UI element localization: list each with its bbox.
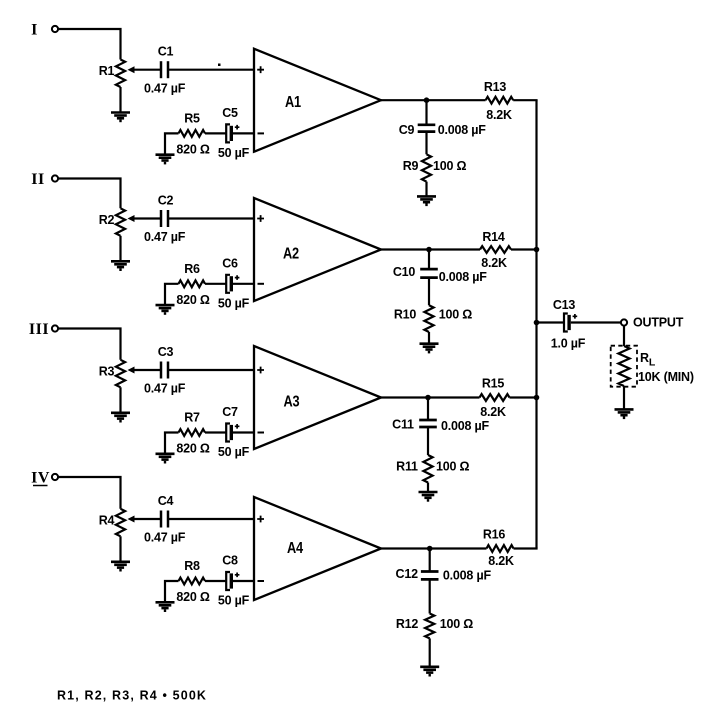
- OUTPUT terminal: [621, 319, 627, 325]
- svg-text:8.2K: 8.2K: [486, 108, 512, 122]
- wire capacitor C3 to + input of op-amp A3: [168, 369, 254, 371]
- svg-text:0.008 µF: 0.008 µF: [438, 123, 487, 137]
- ground below R5: [156, 155, 175, 163]
- svg-text:RL: RL: [640, 351, 656, 369]
- wire resistor R6 to capacitor C6: [205, 283, 226, 285]
- wire resistor R11 to ground: [427, 483, 429, 493]
- svg-text:100 Ω: 100 Ω: [433, 159, 467, 173]
- svg-text:A2: A2: [283, 246, 299, 263]
- wire capacitor C7 to - input of op-amp A3: [233, 431, 254, 433]
- resistor R6 820 ohm: [179, 280, 206, 287]
- svg-text:0.47 µF: 0.47 µF: [144, 230, 186, 244]
- wire capacitor C2 to + input of op-amp A2: [168, 217, 254, 219]
- underline of IV label: [33, 485, 48, 487]
- wire ground to resistor R8: [165, 581, 179, 602]
- wire op-amp A1 output to resistor R13: [381, 99, 486, 101]
- wire capacitor C10 to resistor R10: [428, 278, 430, 306]
- op-amp A3: [254, 346, 381, 449]
- wire op-amp A2 output to resistor R14: [381, 248, 480, 250]
- svg-text:0.008 µF: 0.008 µF: [439, 270, 488, 284]
- op-amp A1: [254, 49, 381, 152]
- potentiometer R2 500K: [116, 208, 135, 236]
- wire ground to resistor R7: [165, 433, 179, 454]
- capacitor C1 0.47 uF: [161, 61, 168, 78]
- ground below R7: [156, 454, 175, 462]
- potentiometer R1 500K: [116, 60, 135, 88]
- svg-text:50 µF: 50 µF: [218, 594, 250, 608]
- junction node at C11 top: [425, 395, 431, 401]
- svg-text:R9: R9: [403, 159, 419, 173]
- capacitor C12 0.008 uF: [421, 572, 439, 580]
- capacitor C9 0.008 uF: [418, 125, 436, 132]
- wire potentiometer R4 to ground: [119, 536, 121, 562]
- wire capacitor C11 to resistor R11: [427, 427, 429, 455]
- svg-text:R3: R3: [99, 365, 115, 379]
- resistor R15 8.2K: [480, 394, 510, 401]
- svg-text:R2: R2: [99, 213, 115, 227]
- ground below R6: [156, 305, 175, 313]
- resistor R13 8.2K: [486, 97, 514, 104]
- ground below R1: [111, 113, 130, 121]
- wire capacitor C6 to - input of op-amp A2: [233, 283, 254, 285]
- wire resistor R12 to ground: [429, 638, 431, 666]
- svg-text:0.47 µF: 0.47 µF: [144, 81, 186, 95]
- svg-text:C11: C11: [392, 418, 414, 432]
- ground below R3: [111, 413, 130, 421]
- svg-text:R1: R1: [99, 64, 115, 78]
- svg-text:R8: R8: [184, 559, 200, 573]
- wire resistor R10 to ground: [428, 332, 430, 344]
- svg-text:100 Ω: 100 Ω: [440, 617, 474, 631]
- wire ground to resistor R6: [165, 284, 179, 305]
- svg-text:50 µF: 50 µF: [218, 146, 250, 160]
- svg-text:50 µF: 50 µF: [218, 296, 250, 310]
- svg-text:8.2K: 8.2K: [481, 256, 507, 270]
- svg-text:C3: C3: [158, 345, 174, 359]
- wire junction to capacitor C10: [428, 250, 430, 270]
- wire resistor R9 to ground: [425, 182, 427, 197]
- ground below R9: [417, 196, 436, 204]
- svg-text:C9: C9: [399, 123, 415, 137]
- capacitor C6 50 uF (polarized): [226, 275, 239, 293]
- capacitor C3 0.47 uF: [161, 362, 168, 379]
- capacitor C11 0.008 uF: [419, 420, 437, 427]
- svg-text:II: II: [31, 171, 44, 188]
- svg-text:10K (MIN): 10K (MIN): [638, 370, 694, 384]
- svg-text:A3: A3: [284, 394, 300, 411]
- svg-text:820 Ω: 820 Ω: [176, 142, 210, 156]
- capacitor C10 0.008 uF: [420, 269, 438, 278]
- svg-text:R5: R5: [184, 111, 200, 125]
- svg-text:820 Ω: 820 Ω: [176, 442, 210, 456]
- svg-text:1.0 µF: 1.0 µF: [551, 337, 586, 351]
- input terminal IV: [52, 474, 58, 480]
- printing speck on + input wire of A1: [218, 64, 221, 67]
- wire input III to potentiometer R3: [58, 329, 120, 360]
- wire capacitor C4 to + input of op-amp A4: [168, 518, 254, 520]
- svg-text:OUTPUT: OUTPUT: [633, 316, 684, 330]
- resistor R5 820 ohm: [179, 130, 206, 137]
- svg-text:0.008 µF: 0.008 µF: [443, 569, 492, 583]
- junction node bus / R15: [534, 395, 540, 401]
- svg-text:820 Ω: 820 Ω: [176, 590, 210, 604]
- input terminal II: [52, 175, 58, 181]
- wire junction to capacitor C12: [429, 549, 431, 572]
- svg-text:C10: C10: [393, 265, 416, 279]
- svg-text:A4: A4: [287, 540, 303, 557]
- resistor R14 8.2K: [480, 246, 511, 253]
- wire op-amp A3 output to resistor R15: [381, 396, 480, 398]
- wire resistor R15 to summing bus: [510, 396, 538, 398]
- op-amp A2: [254, 198, 381, 301]
- svg-text:0.47 µF: 0.47 µF: [144, 531, 186, 545]
- wire junction to capacitor C9: [425, 100, 427, 125]
- wire potentiometer R2 to ground: [119, 236, 121, 261]
- ground below R11: [419, 492, 438, 500]
- wire resistor R5 to capacitor C5: [205, 132, 226, 134]
- potentiometer R3 500K: [116, 360, 135, 388]
- junction node at C12 top: [427, 546, 433, 552]
- capacitor C13 1.0 uF (polarized): [564, 314, 577, 332]
- ground below R10: [420, 344, 439, 352]
- svg-text:R4: R4: [99, 514, 115, 528]
- svg-text:C2: C2: [158, 194, 174, 208]
- wire wiper of R2 to capacitor C2: [133, 217, 161, 219]
- svg-text:8.2K: 8.2K: [488, 554, 514, 568]
- wire capacitor C1 to + input of op-amp A1: [168, 69, 254, 71]
- junction node bus / R14: [534, 247, 540, 253]
- svg-text:IV: IV: [31, 469, 50, 486]
- resistor R7 820 ohm: [179, 429, 206, 436]
- svg-text:C5: C5: [222, 106, 238, 120]
- wire summing bus (vertical): [535, 100, 537, 548]
- wire ground to resistor R5: [165, 133, 179, 154]
- wire capacitor C8 to - input of op-amp A4: [233, 580, 254, 582]
- svg-text:C4: C4: [158, 494, 174, 508]
- potentiometer R4 500K: [116, 509, 135, 537]
- capacitor C8 50 uF (polarized): [226, 572, 239, 590]
- svg-text:R11: R11: [396, 460, 418, 474]
- resistor R11 100 ohm: [423, 455, 432, 483]
- wire potentiometer R1 to ground: [119, 87, 121, 113]
- wire op-amp A4 output to resistor R16: [381, 547, 487, 549]
- svg-text:8.2K: 8.2K: [480, 405, 506, 419]
- svg-text:C6: C6: [222, 256, 238, 270]
- wire junction to capacitor C11: [427, 398, 429, 421]
- svg-text:0.008 µF: 0.008 µF: [441, 419, 490, 433]
- wire resistor R14 to summing bus: [511, 248, 538, 250]
- svg-text:R7: R7: [184, 411, 200, 425]
- junction node at C10 top: [426, 247, 432, 253]
- wire resistor R13 to summing bus: [513, 99, 537, 101]
- wire resistor R16 to summing bus: [514, 547, 538, 549]
- junction node at C9 top: [424, 97, 430, 103]
- ground below RL: [615, 409, 634, 417]
- svg-text:R16: R16: [483, 528, 506, 542]
- wire OUTPUT terminal to load resistor RL: [623, 326, 625, 346]
- resistor R12 100 ohm: [425, 614, 434, 639]
- wire capacitor C9 to resistor R9: [425, 132, 427, 155]
- wire resistor R8 to capacitor C8: [205, 580, 226, 582]
- svg-text:A1: A1: [285, 94, 301, 111]
- op-amp A4: [254, 497, 381, 600]
- wire input II to potentiometer R2: [58, 179, 120, 209]
- svg-text:C13: C13: [553, 298, 576, 312]
- svg-text:100 Ω: 100 Ω: [436, 460, 470, 474]
- svg-text:C1: C1: [158, 45, 174, 59]
- svg-text:R14: R14: [482, 230, 505, 244]
- svg-text:C7: C7: [222, 405, 238, 419]
- ground below R8: [156, 602, 175, 610]
- input terminal III: [52, 325, 58, 331]
- wire wiper of R3 to capacitor C3: [133, 369, 161, 371]
- svg-text:I: I: [31, 21, 38, 38]
- svg-text:R6: R6: [184, 262, 200, 276]
- wire potentiometer R3 to ground: [119, 387, 121, 413]
- svg-text:C12: C12: [396, 567, 419, 581]
- wire capacitor C5 to - input of op-amp A1: [233, 132, 254, 134]
- svg-text:820 Ω: 820 Ω: [176, 293, 210, 307]
- svg-text:R1, R2, R3, R4 • 500K: R1, R2, R3, R4 • 500K: [57, 689, 207, 703]
- input terminal I: [52, 26, 58, 32]
- wire capacitor C12 to resistor R12: [429, 579, 431, 613]
- svg-text:50 µF: 50 µF: [218, 445, 250, 459]
- wire wiper of R1 to capacitor C1: [133, 69, 161, 71]
- resistor R9 100 ohm: [422, 154, 431, 181]
- resistor R16 8.2K: [487, 545, 514, 552]
- wire bus to capacitor C13: [537, 321, 565, 323]
- svg-text:100 Ω: 100 Ω: [439, 307, 473, 321]
- capacitor C7 50 uF (polarized): [226, 424, 239, 442]
- wire capacitor C13 to OUTPUT terminal: [571, 321, 621, 323]
- ground below R12: [420, 667, 439, 675]
- ground below R2: [111, 261, 130, 269]
- ground below R4: [111, 562, 130, 570]
- svg-text:R15: R15: [482, 377, 505, 391]
- resistor R8 820 ohm: [179, 578, 206, 585]
- wire wiper of R4 to capacitor C4: [133, 518, 161, 520]
- capacitor C5 50 uF (polarized): [226, 124, 239, 142]
- wire input I to potentiometer R1: [58, 29, 120, 60]
- svg-text:C8: C8: [222, 554, 238, 568]
- svg-text:R13: R13: [484, 80, 507, 94]
- resistor R10 100 ohm: [424, 305, 433, 332]
- junction node bus / C13: [534, 320, 540, 326]
- capacitor C2 0.47 uF: [161, 210, 168, 227]
- load resistor RL (dashed outline): [611, 346, 637, 387]
- capacitor C4 0.47 uF: [161, 511, 168, 528]
- svg-text:0.47 µF: 0.47 µF: [144, 382, 186, 396]
- wire resistor R7 to capacitor C7: [205, 431, 226, 433]
- wire load resistor RL to ground: [623, 386, 625, 409]
- svg-text:III: III: [29, 321, 49, 338]
- svg-text:R10: R10: [394, 307, 417, 321]
- svg-text:R12: R12: [396, 617, 419, 631]
- wire input IV to potentiometer R4: [58, 477, 120, 509]
